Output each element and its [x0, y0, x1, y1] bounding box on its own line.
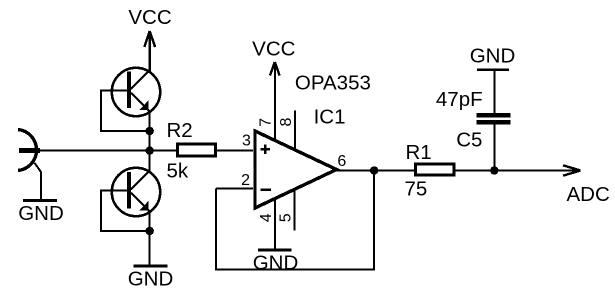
svg-text:3: 3 — [242, 133, 251, 150]
wire pin 2 — [216, 188, 253, 190]
ADC output arrow — [563, 165, 581, 175]
resistor R2 — [178, 144, 216, 156]
wire Q1 emitter down — [149, 111, 151, 132]
node signal junction — [146, 146, 154, 154]
wire connector shield to ground — [35, 163, 42, 199]
wire Q1 collector to VCC — [149, 32, 151, 71]
svg-text:C5: C5 — [456, 128, 482, 151]
svg-text:2: 2 — [241, 172, 250, 189]
wire main signal line — [40, 150, 176, 152]
wire chain between junctions — [149, 131, 151, 171]
connector J1 center pin — [19, 148, 40, 153]
wire C5 to output line — [493, 124, 495, 170]
pin 4 wire to ground — [274, 199, 276, 249]
wire op-amp output — [336, 170, 580, 172]
node Q1 base-emitter junction — [146, 127, 154, 135]
wire R2 to op-amp pin 3 — [217, 150, 253, 152]
svg-text:VCC: VCC — [128, 6, 171, 29]
node feedback junction — [370, 166, 378, 174]
pin 7 wire to VCC — [274, 63, 276, 141]
svg-text:7: 7 — [258, 118, 275, 127]
node Q2 base-emitter junction — [146, 227, 154, 235]
ground (below Q2) — [134, 265, 168, 268]
svg-text:OPA353: OPA353 — [295, 72, 371, 95]
svg-text:5k: 5k — [167, 160, 189, 183]
svg-text:75: 75 — [405, 178, 428, 201]
svg-text:8: 8 — [278, 117, 295, 126]
capacitor C5 — [477, 113, 511, 117]
power VCC (left) — [144, 31, 155, 47]
wire Q1 base loop — [101, 91, 150, 132]
svg-text:GND: GND — [470, 45, 516, 68]
wire feedback loop — [216, 171, 374, 270]
power VCC (op-amp) — [270, 62, 280, 76]
wire Q2 base loop — [101, 191, 150, 231]
transistor Q1 (diode-connected, upper) — [112, 68, 160, 116]
svg-text:GND: GND — [253, 251, 299, 274]
svg-text:IC1: IC1 — [314, 105, 346, 128]
svg-text:GND: GND — [128, 267, 174, 290]
svg-text:R2: R2 — [167, 119, 193, 142]
svg-text:6: 6 — [337, 153, 346, 170]
svg-text:GND: GND — [18, 202, 64, 225]
ground (below connector) — [23, 199, 57, 202]
wire Q2 emitter down — [149, 211, 151, 266]
svg-text:ADC: ADC — [567, 183, 610, 206]
svg-text:4: 4 — [258, 213, 275, 222]
svg-text:VCC: VCC — [252, 38, 295, 61]
svg-text:47pF: 47pF — [436, 88, 483, 111]
connector J1 (input jack) — [18, 130, 37, 171]
wire C5 to ground — [493, 71, 495, 113]
ground (op-amp pin 4) — [258, 249, 292, 252]
op-amp U1 triangle — [255, 131, 337, 208]
node C5 junction — [490, 166, 498, 174]
pin 8 wire — [294, 110, 296, 149]
svg-text:R1: R1 — [406, 141, 432, 164]
resistor R1 — [416, 164, 455, 175]
svg-text:5: 5 — [278, 213, 295, 222]
transistor Q2 (diode-connected, lower) — [112, 168, 160, 216]
ground (above C5) — [477, 68, 509, 71]
pin 5 wire — [294, 190, 296, 231]
